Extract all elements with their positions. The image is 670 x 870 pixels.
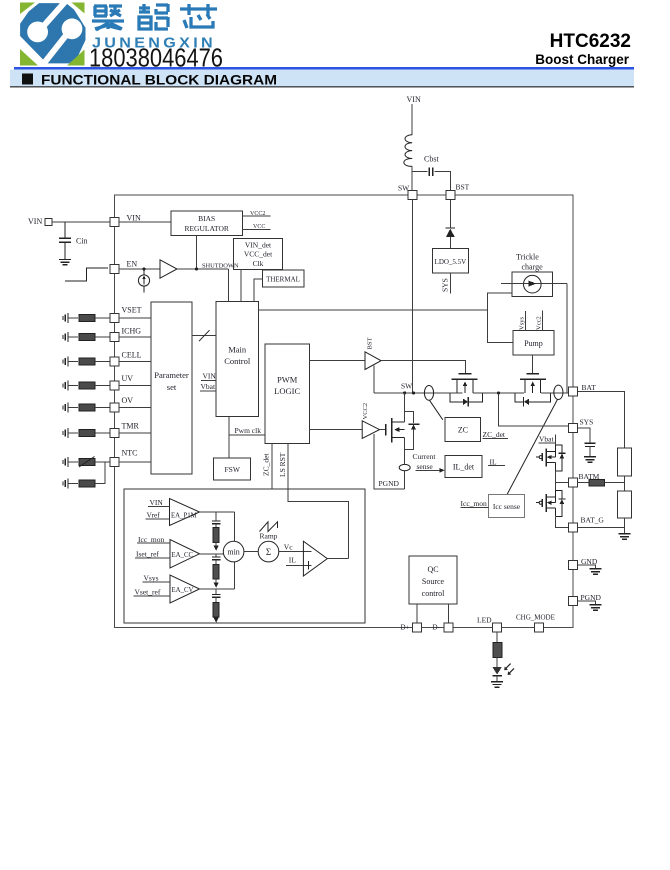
- svg-text:Vbat: Vbat: [201, 382, 216, 391]
- svg-text:Icc_mon: Icc_mon: [461, 499, 487, 508]
- pin BST: [446, 191, 455, 200]
- svg-text:Icc sense: Icc sense: [493, 502, 521, 511]
- svg-text:PWM: PWM: [277, 375, 298, 385]
- svg-text:QC: QC: [427, 565, 438, 574]
- sense ellipse B: [554, 385, 563, 399]
- svg-text:Control: Control: [224, 356, 251, 366]
- svg-text:VCC_det: VCC_det: [244, 250, 273, 259]
- svg-text:D-: D-: [433, 624, 441, 632]
- net PGND: [374, 434, 405, 489]
- svg-text:BIAS: BIAS: [198, 214, 215, 223]
- pin BATM: [569, 478, 578, 487]
- block Icc sense: [488, 495, 524, 518]
- svg-text:EA_CC: EA_CC: [172, 552, 194, 559]
- LED D2: [492, 667, 501, 675]
- svg-text:FUNCTIONAL BLOCK DIAGRAM: FUNCTIONAL BLOCK DIAGRAM: [41, 72, 277, 88]
- svg-text:SW: SW: [398, 184, 410, 193]
- wire BAT_G to battery string foot: [578, 527, 625, 529]
- svg-text:Vref: Vref: [147, 511, 161, 520]
- ground (C-SYS): [584, 457, 596, 462]
- svg-text:BAT: BAT: [582, 383, 597, 392]
- svg-text:Vbat: Vbat: [539, 435, 554, 444]
- ground (GND pin): [578, 565, 596, 568]
- svg-text:EA_CV: EA_CV: [172, 587, 194, 594]
- net VCC2 stub: [243, 215, 271, 217]
- svg-text:Vsys: Vsys: [519, 317, 526, 330]
- white corner margins: [16, 1, 90, 71]
- pin EN: [110, 265, 119, 274]
- net SYS from LDO: [449, 273, 451, 294]
- svg-text:TMR: TMR: [122, 422, 140, 431]
- svg-text:D+: D+: [401, 624, 410, 632]
- svg-text:Cbst: Cbst: [424, 155, 439, 164]
- svg-text:Σ: Σ: [266, 547, 271, 557]
- svg-text:IL: IL: [289, 556, 296, 565]
- pin D-: [444, 623, 453, 632]
- pin LED: [493, 623, 502, 632]
- svg-text:EN: EN: [127, 260, 138, 269]
- pin D+: [413, 623, 422, 632]
- comparator U-PWMCMP: [303, 541, 327, 576]
- buffer U-EN: [160, 260, 177, 278]
- net Vcc2 into pump: [542, 310, 544, 330]
- net ZC_det from PWM logic: [271, 444, 273, 490]
- wire VIN pin to BIAS: [119, 221, 171, 223]
- min selector: [223, 541, 244, 562]
- wire SHUTDOWN down to Main Control: [228, 269, 230, 302]
- input row OV: [63, 402, 68, 412]
- svg-text:SYS: SYS: [441, 278, 450, 292]
- svg-text:VIN: VIN: [28, 217, 42, 226]
- svg-text:BST: BST: [367, 338, 374, 350]
- pin GND: [569, 561, 578, 570]
- svg-text:FSW: FSW: [224, 465, 240, 474]
- input row NTC thermistor: [63, 457, 68, 467]
- wire main control to trickle/pump: [488, 293, 514, 343]
- compensation chain 3: [215, 589, 217, 594]
- wire ellipse B to Icc sense: [507, 399, 558, 494]
- svg-text:LED: LED: [477, 615, 492, 624]
- diode D1 (bootstrap): [446, 227, 455, 229]
- transistor Q2 (HS switch B): [527, 373, 540, 375]
- capacitor C-SYS: [578, 428, 590, 443]
- input row TMR: [63, 428, 68, 438]
- inductor L1: [404, 135, 412, 167]
- block Main Control: [216, 302, 259, 417]
- net SYS internal: [499, 393, 569, 426]
- wire Q4 to BATM: [556, 471, 569, 490]
- svg-text:ICHG: ICHG: [122, 327, 142, 336]
- svg-text:VCC: VCC: [253, 224, 265, 230]
- svg-text:VIN_det: VIN_det: [245, 240, 272, 249]
- svg-text:NTC: NTC: [122, 449, 138, 458]
- resistor RB2: [618, 491, 632, 518]
- block VIN_det VCC_det Clk: [234, 239, 283, 270]
- svg-text:Pump: Pump: [524, 339, 543, 348]
- sense ellipse C (current sense): [399, 464, 410, 470]
- input row CELL: [63, 356, 68, 366]
- wire Q5 to BAT_G: [556, 516, 569, 527]
- svg-text:VCC2: VCC2: [250, 211, 265, 217]
- EA output rails: [200, 512, 235, 589]
- svg-text:Vset_ref: Vset_ref: [135, 587, 161, 596]
- svg-text:REGULATOR: REGULATOR: [184, 224, 228, 233]
- HEADER: [10, 0, 634, 88]
- svg-text:IL: IL: [490, 457, 497, 466]
- wire EN to buffer: [119, 268, 160, 270]
- svg-text:Main: Main: [228, 345, 247, 355]
- wire trickle to BAT rail: [566, 284, 568, 393]
- compensation chain 2: [215, 554, 217, 557]
- svg-text:ZC: ZC: [458, 426, 468, 435]
- svg-text:CELL: CELL: [122, 351, 142, 360]
- svg-text:GND: GND: [581, 557, 598, 566]
- summer: [258, 541, 279, 562]
- resistor R-LED: [496, 632, 498, 642]
- transistor Q3 (LS switch): [380, 429, 386, 431]
- net VCC stub: [243, 228, 271, 230]
- NTC parallel resistor row: [63, 478, 68, 488]
- block THERMAL: [262, 270, 304, 287]
- block LDO_5.5V: [432, 249, 468, 273]
- company chinese name (drawn strokes): [92, 6, 124, 30]
- op-amp EA_CV: [170, 575, 200, 603]
- junction: [142, 267, 145, 270]
- ground (battery string): [619, 534, 631, 539]
- wire THERMAL to Main Control: [254, 279, 262, 302]
- wire BST pin to diode: [449, 200, 451, 228]
- pin SW: [408, 191, 417, 200]
- svg-text:LOGIC: LOGIC: [274, 386, 300, 396]
- svg-text:Cin: Cin: [76, 237, 88, 246]
- svg-text:Vsys: Vsys: [144, 573, 159, 582]
- logo mark: [16, 0, 90, 70]
- svg-text:EA_P1M: EA_P1M: [171, 513, 197, 520]
- blue rule: [14, 67, 634, 70]
- svg-text:Icc_mon: Icc_mon: [138, 535, 164, 544]
- wire VIN input to pin: [52, 221, 110, 223]
- wire pump to Q2 gate: [531, 355, 533, 373]
- wires pins to Parameter set: [119, 318, 151, 462]
- block PWM LOGIC: [265, 344, 310, 444]
- EA section box: [124, 489, 365, 623]
- wire buffer out / SHUTDOWN: [177, 268, 229, 270]
- svg-text:Iset_ref: Iset_ref: [136, 550, 159, 559]
- svg-text:VIN: VIN: [150, 498, 164, 507]
- svg-text:Boost Charger: Boost Charger: [535, 52, 630, 67]
- block Parameter set: [151, 302, 192, 474]
- wire VIN_det to Main Control: [240, 270, 242, 302]
- green corner triangles: [20, 3, 35, 15]
- block FSW: [214, 458, 251, 480]
- pin PGND: [569, 597, 578, 606]
- svg-text:HTC6232: HTC6232: [550, 31, 631, 52]
- svg-text:LDO_5.5V: LDO_5.5V: [435, 258, 467, 266]
- op-amp EA_P1M: [170, 499, 200, 526]
- svg-text:THERMAL: THERMAL: [266, 276, 300, 284]
- bullet: [22, 74, 33, 85]
- svg-text:ZC_det: ZC_det: [483, 430, 506, 439]
- resistor R-sense (BATM): [589, 480, 604, 486]
- svg-text:VIN: VIN: [407, 95, 421, 104]
- white slash upper: [44, 0, 68, 26]
- block QC source control: [409, 556, 457, 604]
- blue octagon mark: [20, 3, 85, 63]
- wire comparator output: [327, 558, 348, 560]
- svg-text:CHG_MODE: CHG_MODE: [516, 614, 555, 622]
- svg-text:LS RST: LS RST: [278, 452, 287, 477]
- ground (Cin): [59, 260, 71, 265]
- resistor RB1: [618, 448, 632, 476]
- block IL_det: [445, 455, 482, 477]
- driver U-LS (VCC2): [310, 429, 363, 431]
- block pump: [513, 331, 554, 355]
- net LS RST from PWM logic to comparator: [288, 444, 349, 559]
- transistor Q1 (HS switch A): [459, 373, 472, 375]
- pin BAT: [569, 387, 578, 396]
- svg-text:BST: BST: [456, 183, 470, 192]
- enable step waveform glyph: [65, 268, 108, 281]
- wire Main Control to FSW: [228, 417, 230, 459]
- driver U-BST: [310, 360, 366, 362]
- svg-text:SW: SW: [401, 382, 413, 391]
- current source (EN pulldown): [138, 275, 149, 286]
- svg-text:Trickle: Trickle: [516, 253, 539, 262]
- pin VIN: [110, 218, 119, 227]
- ground (PGND pin): [578, 601, 596, 604]
- wire ellipse A to ZC: [430, 400, 443, 420]
- pin BAT_G: [569, 523, 578, 532]
- svg-text:PGND: PGND: [379, 479, 400, 488]
- svg-text:Vc: Vc: [284, 543, 293, 552]
- svg-text:SYS: SYS: [580, 417, 594, 426]
- wires QC to D+ / D-: [417, 604, 449, 623]
- white slash lower: [41, 36, 66, 67]
- svg-text:control: control: [422, 589, 445, 598]
- main block outline: [115, 195, 574, 628]
- wire BATM to sense resistor: [578, 482, 590, 484]
- svg-text:IL_det: IL_det: [453, 463, 475, 472]
- pin SYS: [569, 424, 578, 433]
- block ZC: [445, 417, 481, 441]
- capacitor Cin: [59, 238, 71, 242]
- svg-text:Clk: Clk: [253, 259, 264, 268]
- wire SW pin down to SW rail: [411, 200, 413, 393]
- wire Main Control to pump/trickle: [259, 309, 488, 311]
- block U-BIAS regulator: [171, 211, 243, 236]
- svg-text:VSET: VSET: [122, 306, 142, 315]
- svg-text:Current: Current: [413, 452, 437, 461]
- input row VSET: ground, resistor R-VSET, pin: [63, 313, 68, 323]
- input row UV: [63, 380, 68, 390]
- svg-text:Pwm clk: Pwm clk: [235, 426, 262, 435]
- svg-text:Source: Source: [422, 577, 445, 586]
- svg-text:Ramp: Ramp: [260, 532, 278, 541]
- net Vsys into pump: [525, 311, 527, 331]
- svg-text:charge: charge: [522, 262, 544, 271]
- op-amp EA_CC: [170, 540, 200, 569]
- net Vc: [279, 551, 312, 553]
- svg-text:BAT_G: BAT_G: [581, 516, 605, 525]
- svg-text:VCC2: VCC2: [362, 403, 369, 420]
- svg-text:OV: OV: [122, 396, 134, 405]
- svg-text:set: set: [167, 382, 177, 392]
- input row ICHG: [63, 332, 68, 342]
- pin CHG_MODE: [535, 623, 544, 632]
- VIN input pad: [45, 219, 52, 226]
- section band: [10, 70, 634, 87]
- wire BAT to battery string: [578, 392, 625, 449]
- svg-text:Vcc2: Vcc2: [535, 316, 542, 330]
- transistor Q5 (battery switch bottom): [536, 490, 566, 516]
- white circles: [27, 22, 48, 43]
- ground (LED): [491, 682, 503, 687]
- svg-text:ZC_det: ZC_det: [262, 453, 271, 476]
- svg-text:Parameter: Parameter: [154, 370, 189, 380]
- bus wire Parameter set to Main Control with slash: [192, 335, 216, 337]
- svg-text:VIN: VIN: [127, 214, 141, 223]
- wire BIAS to SHUTDOWN node: [196, 236, 198, 269]
- transistor Q4 (battery switch top): [536, 445, 566, 471]
- svg-text:sense: sense: [417, 462, 434, 471]
- compensation chain 1: [215, 512, 217, 520]
- svg-text:UV: UV: [122, 374, 134, 383]
- wire min to sum: [244, 551, 258, 553]
- svg-text:min: min: [227, 548, 239, 557]
- svg-text:VIN: VIN: [203, 372, 217, 381]
- sense ellipse A: [424, 386, 433, 401]
- svg-text:PGND: PGND: [581, 593, 602, 602]
